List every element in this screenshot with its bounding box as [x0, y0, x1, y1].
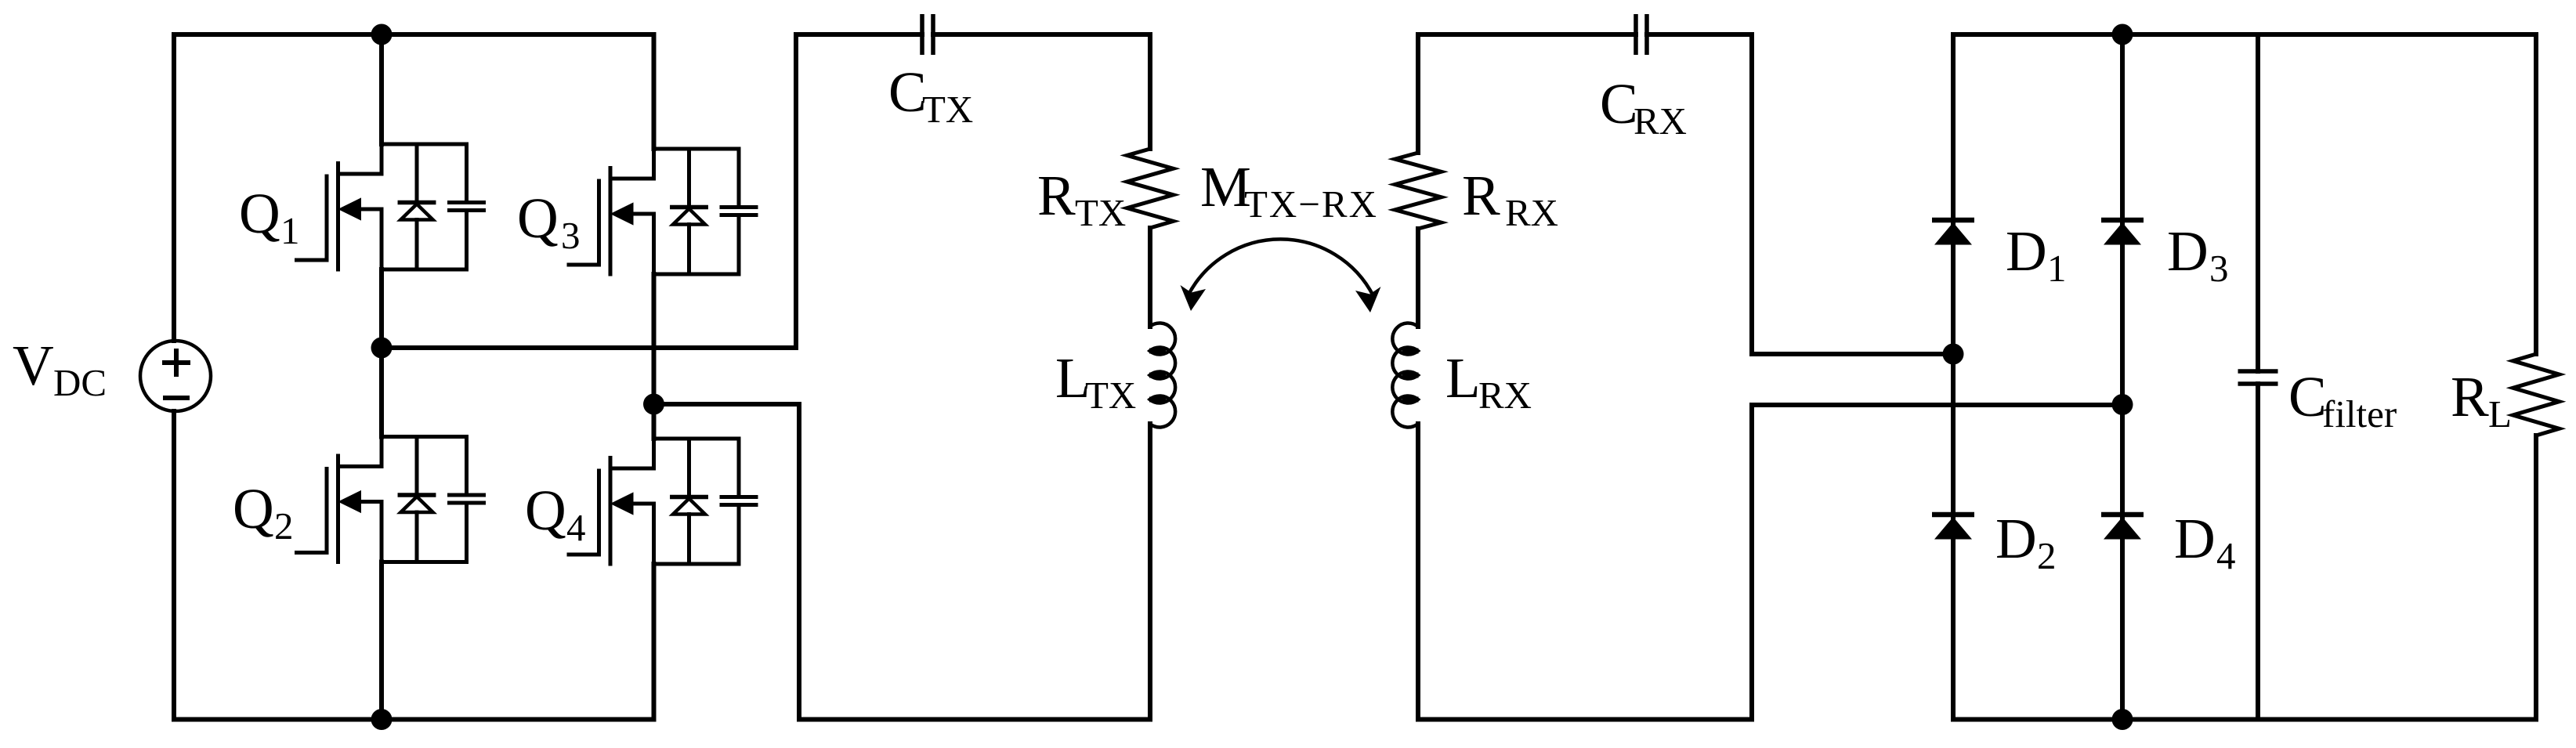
diode D1 [1932, 220, 1974, 245]
diode D2 [1932, 515, 1974, 540]
wire D1 D2 leg [1951, 34, 1956, 720]
svg-text:Q: Q [525, 479, 566, 542]
resistor RRX [1395, 153, 1442, 229]
wire RX output lower to rectifier [1752, 403, 2122, 407]
wire LTX to bottom [1148, 424, 1152, 720]
label Q1 [239, 182, 300, 252]
svg-text:RX: RX [1478, 374, 1532, 417]
label CRX [1600, 72, 1687, 143]
svg-text:2: 2 [2037, 534, 2057, 577]
svg-text:TX: TX [1085, 374, 1136, 417]
wire RX bottom rail [1418, 717, 1752, 722]
svg-text:C: C [888, 60, 927, 124]
svg-text:4: 4 [2216, 534, 2236, 577]
svg-text:2: 2 [274, 504, 294, 547]
wire rectifier bottom rail [1953, 717, 2536, 722]
svg-text:D: D [2167, 219, 2209, 283]
wire RX right upper [1749, 34, 1754, 354]
label D2 [1995, 507, 2057, 577]
svg-text:Q: Q [517, 186, 559, 250]
wire TX top rail right of CTX [933, 32, 1150, 37]
svg-text:D: D [2006, 219, 2047, 283]
resistor RTX [1127, 149, 1174, 228]
svg-text:L: L [2488, 392, 2512, 435]
svg-text:3: 3 [2209, 247, 2229, 290]
diode D4 [2101, 515, 2144, 540]
svg-text:R: R [2451, 365, 2489, 428]
node top of left leg [371, 24, 393, 45]
wire RX output upper to rectifier [1752, 352, 1953, 356]
wire Q2 drain feed [379, 348, 384, 437]
wire RX left above RRX [1416, 34, 1420, 153]
svg-text:TX: TX [1075, 191, 1126, 234]
wire Q3 drain feed [652, 34, 657, 149]
wire RL leg lower [2534, 435, 2538, 720]
wire TX right above RTX [1148, 34, 1152, 149]
svg-text:3: 3 [561, 214, 581, 257]
svg-text:filter: filter [2322, 392, 2397, 435]
svg-text:1: 1 [280, 209, 300, 252]
label RRX [1462, 164, 1558, 234]
svg-text:Q: Q [233, 477, 274, 540]
wire bridge output B to TX bottom [654, 404, 800, 720]
svg-text:TX: TX [922, 88, 973, 131]
svg-text:C: C [1600, 72, 1638, 136]
svg-text:V: V [13, 334, 54, 397]
wire Cfilter leg lower [2256, 384, 2260, 720]
transistor Q2 [297, 437, 484, 562]
inductor LRX [1392, 323, 1418, 427]
svg-text:D: D [1995, 507, 2037, 570]
wire TX top rail left of CTX [796, 32, 922, 37]
svg-text:1: 1 [2047, 247, 2067, 290]
wire RL leg upper [2534, 34, 2538, 354]
wire RX top rail right of CRX [1647, 32, 1752, 37]
label LRX [1445, 346, 1532, 417]
svg-text:C: C [2288, 365, 2327, 428]
wire TX bottom rail [799, 717, 1150, 722]
wire D3 D4 leg [2120, 34, 2125, 720]
label M TX-RX [1200, 155, 1377, 226]
capacitor CRX [1636, 14, 1647, 55]
wire Cfilter leg upper [2256, 34, 2260, 371]
wire left side below VDC [172, 411, 176, 720]
label VDC [13, 334, 107, 404]
label D4 [2174, 507, 2236, 577]
transistor Q1 [297, 144, 484, 269]
capacitor CTX [922, 14, 933, 55]
inductor LTX [1149, 323, 1175, 427]
label D3 [2167, 219, 2229, 290]
coupling arrow M TX-RX [1181, 239, 1381, 313]
node rectifier bottom rail D4 [2112, 709, 2133, 730]
node rectifier top rail D3 [2112, 24, 2133, 45]
label RL [2451, 365, 2512, 435]
svg-text:RX: RX [1634, 99, 1687, 143]
wire Q1 drain feed [379, 34, 384, 144]
svg-text:L: L [1445, 346, 1481, 410]
wire LRX to bottom [1416, 424, 1420, 720]
wire left side above VDC [172, 34, 176, 341]
label RTX [1037, 164, 1126, 234]
wire Q4 drain feed [652, 404, 657, 439]
node rectifier input upper [1943, 344, 1964, 365]
wire rectifier top rail [1953, 32, 2536, 37]
node bottom of left leg [371, 709, 393, 730]
dc source VDC [140, 341, 211, 411]
diode D3 [2101, 220, 2144, 245]
svg-text:D: D [2174, 507, 2216, 570]
wire RRX to LRX [1416, 229, 1420, 327]
svg-text:R: R [1462, 164, 1500, 227]
wire Q4 source to bottom rail [652, 564, 657, 720]
wire Q1 source to mid node [379, 269, 384, 348]
wire bridge output A to TX top [382, 34, 796, 348]
capacitor Cfilter [2238, 371, 2278, 384]
label LTX [1055, 346, 1136, 417]
label Q3 [517, 186, 581, 257]
wire RX top rail left of CRX [1418, 32, 1636, 37]
node A bridge mid left [371, 338, 393, 359]
wire RX right lower [1749, 405, 1754, 720]
label D1 [2006, 219, 2067, 290]
svg-text:R: R [1037, 164, 1076, 227]
wire Q3 source to mid node [652, 274, 657, 404]
wire bottom rail left section [174, 717, 654, 722]
transistor Q4 [569, 439, 756, 564]
transistor Q3 [569, 149, 756, 274]
node rectifier input lower [2112, 394, 2133, 415]
wire RTX to LTX [1148, 228, 1152, 327]
label CTX [888, 60, 973, 131]
svg-text:TX−RX: TX−RX [1244, 182, 1377, 226]
svg-text:4: 4 [566, 506, 586, 549]
wire top rail left section [174, 32, 654, 37]
resistor RL [2513, 354, 2560, 435]
label Q2 [233, 477, 294, 547]
svg-text:Q: Q [239, 182, 280, 245]
svg-text:DC: DC [53, 361, 107, 404]
label Cfilter [2288, 365, 2397, 435]
wire Q2 source to bottom rail [379, 562, 384, 720]
label Q4 [525, 479, 586, 549]
node B bridge mid right [643, 394, 664, 415]
svg-text:RX: RX [1505, 191, 1558, 234]
